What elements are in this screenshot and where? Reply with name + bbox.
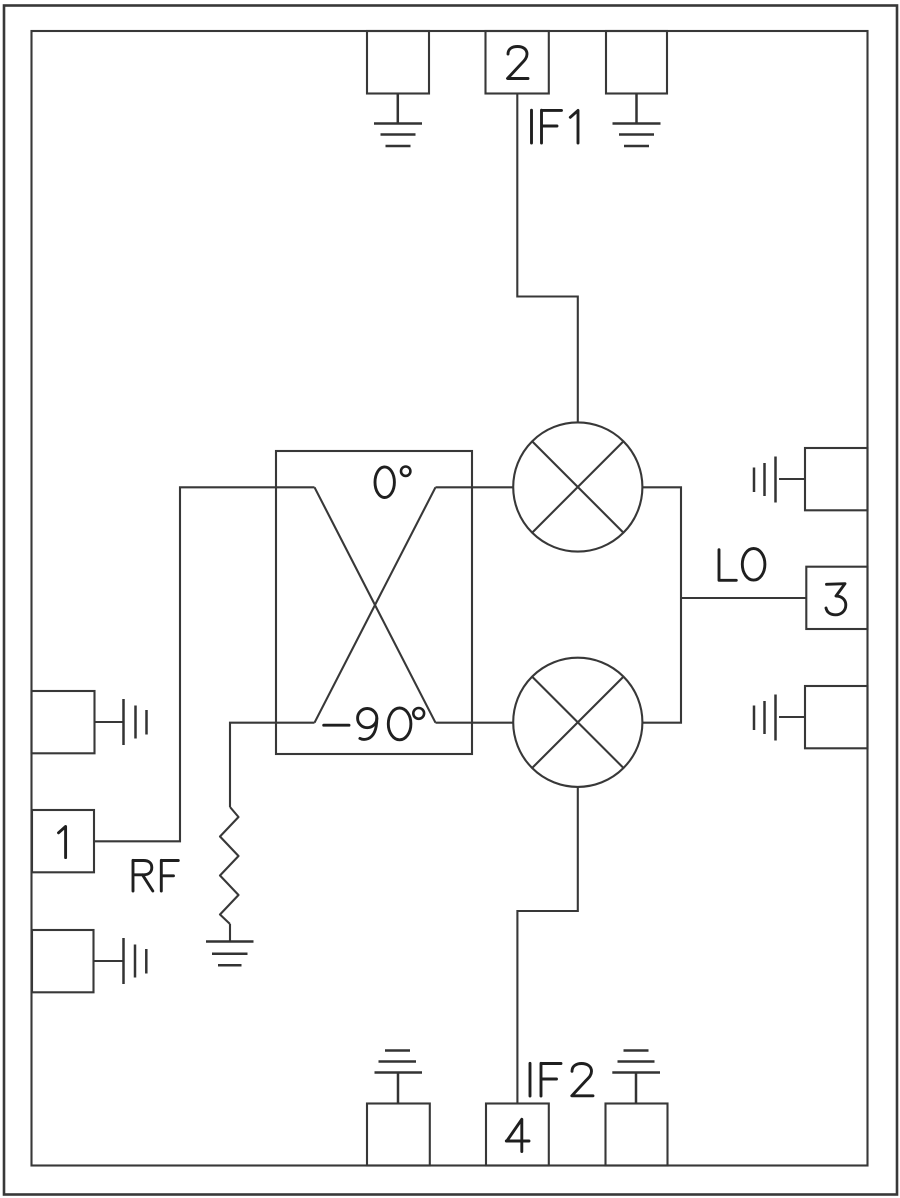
wire RF: pad 1 to hybrid input: [94, 487, 276, 841]
label IF1: [532, 110, 579, 143]
wire: hybrid -90 deg output to mixer M2: [472, 722, 513, 724]
resistor R1 (termination): [220, 807, 239, 924]
pad 2 (IF1 port): [486, 31, 549, 94]
pin number 4: [506, 1119, 529, 1151]
wire: hybrid isolated port to resistor R1: [230, 723, 276, 807]
ground symbol GND3 (sideways): [754, 457, 776, 503]
wire: LO distribution to mixers M1 and M2: [642, 487, 681, 722]
mixer M1 (upper): [513, 422, 642, 551]
wire IF2: mixer M2 to pad 4: [517, 787, 577, 1104]
ground pad (right upper): [779, 448, 868, 510]
ground pad (bottom left): [367, 1104, 430, 1166]
pad 1 (RF port): [32, 810, 94, 872]
label -90 deg: [324, 708, 424, 740]
wire: hybrid 0 deg output to mixer M1: [472, 486, 513, 488]
mixer M2 (lower): [513, 658, 642, 787]
ground pad (bottom right): [606, 1104, 668, 1166]
ground symbol GND7: [206, 942, 254, 966]
quadrature hybrid U1 (90 degree coupler): [276, 451, 472, 754]
label RF: [133, 860, 178, 891]
pin number 3: [826, 584, 846, 615]
ground symbol GND2: [613, 94, 661, 147]
pin number 1: [59, 827, 66, 858]
pad 4 (IF2 port): [486, 1104, 549, 1166]
wire: LO feed to pad 3: [681, 597, 806, 599]
ground pad (left lower): [32, 930, 124, 992]
ground pad (top left): [367, 31, 429, 94]
ground symbol GND1: [374, 94, 422, 147]
pad 3 (LO port): [806, 567, 867, 629]
ground symbol GND9 (inverted): [612, 1051, 660, 1104]
label LO: [719, 549, 765, 581]
ground symbol GND4 (sideways): [754, 695, 776, 741]
ground symbol GND8 (inverted): [375, 1051, 423, 1104]
label 0 deg: [375, 467, 410, 498]
ground symbol GND6 (sideways): [124, 938, 147, 984]
ground pad (right lower): [779, 686, 868, 748]
wire: resistor R1 to ground: [229, 924, 231, 942]
wire IF1: pad 2 to mixer M1: [517, 94, 578, 423]
ground pad (left upper): [32, 691, 124, 753]
ground symbol GND5 (sideways): [124, 699, 147, 745]
ground pad (top right): [606, 31, 667, 94]
pin number 2: [508, 47, 529, 79]
label IF2: [530, 1063, 593, 1096]
